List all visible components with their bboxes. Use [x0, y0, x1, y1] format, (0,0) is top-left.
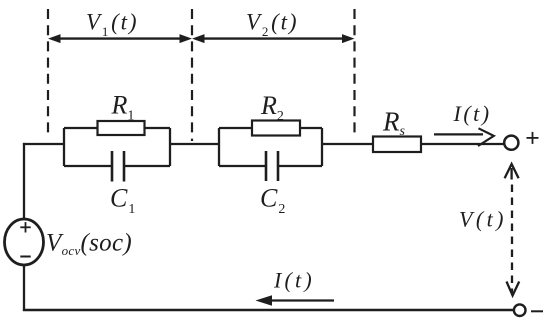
- resistor R1: [98, 121, 145, 135]
- voltage arrow V(t) dashed: [505, 164, 520, 296]
- node dashed line right (V2 right boundary): [353, 9, 355, 133]
- negative terminal: [514, 304, 526, 316]
- wire: Rs to positive terminal: [421, 143, 505, 145]
- svg-text:V(t): V(t): [459, 207, 507, 232]
- capacitor C1: [112, 151, 124, 182]
- svg-text:Vocv(soc): Vocv(soc): [46, 230, 132, 259]
- wire: RC branch 2 frame: [219, 128, 322, 166]
- wire: RC branch 1 frame: [64, 128, 170, 166]
- svg-text:I(t): I(t): [453, 101, 492, 126]
- resistor Rs: [373, 137, 421, 153]
- plus sign at terminal: [527, 132, 539, 144]
- wire: left vertical below source: [23, 265, 25, 311]
- minus sign at terminal: [531, 310, 543, 312]
- minus sign inside source: [20, 256, 30, 258]
- svg-text:I(t): I(t): [273, 268, 315, 293]
- capacitor C2: [266, 151, 278, 181]
- node dashed line middle (V1/V2 boundary): [191, 9, 193, 141]
- wire: branch 2 to Rs: [322, 143, 373, 145]
- dimension arrow V1(t): [48, 34, 192, 43]
- resistor R2: [252, 121, 300, 136]
- plus sign inside source: [20, 222, 30, 232]
- node dashed line left (V1 left boundary): [47, 9, 49, 137]
- current arrow I(t) bottom: [256, 295, 335, 306]
- dimension arrow V2(t): [192, 34, 355, 43]
- current arrow I(t) top: [434, 128, 494, 146]
- wire: left vertical above source: [23, 143, 25, 220]
- voltage source Vocv: [5, 219, 44, 265]
- wire: bottom return: [23, 309, 514, 311]
- wire: left horizontal into branch 1: [23, 143, 64, 145]
- wire: between branch 1 and branch 2: [170, 143, 219, 145]
- positive terminal: [504, 136, 518, 150]
